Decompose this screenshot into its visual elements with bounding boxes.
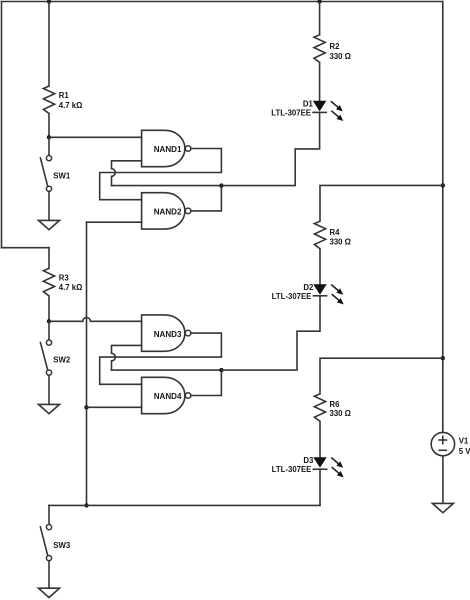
wire left rail [1, 2, 3, 248]
wire R6 to D3 [319, 421, 321, 457]
wire R3 to node [48, 296, 50, 321]
wire SW2 to ground [48, 375, 50, 404]
NAND gate U3 NAND3 [142, 315, 191, 351]
wire latch1 output line [112, 185, 222, 187]
wire NAND3 output to NAND4 input A [100, 333, 222, 384]
wire rail to R4 [320, 185, 443, 221]
wire D3 to SW3 line [319, 469, 321, 505]
wire node to NAND1 input A [49, 136, 142, 138]
voltage source V1 [431, 432, 470, 456]
svg-text:LTL-307EE: LTL-307EE [272, 292, 312, 301]
wire R1 top [48, 2, 50, 87]
resistor R6 [314, 394, 351, 422]
svg-text:R2: R2 [330, 42, 341, 51]
node R3 / SW2 / NAND3 [47, 319, 51, 323]
node right rail / R4 [441, 183, 445, 187]
svg-text:NAND2: NAND2 [154, 208, 182, 217]
svg-text:NAND3: NAND3 [154, 330, 182, 339]
NAND gate U1 NAND1 [142, 130, 191, 166]
svg-text:330 Ω: 330 Ω [330, 52, 351, 61]
svg-text:V1: V1 [459, 436, 469, 445]
switch SW1 [40, 156, 71, 192]
wire NAND4 input B [87, 406, 142, 408]
ground SW3 [39, 588, 60, 597]
svg-text:R4: R4 [330, 228, 341, 237]
svg-text:NAND4: NAND4 [154, 392, 182, 401]
wire node to SW2 [48, 321, 50, 340]
switch SW2 [40, 340, 71, 375]
node top rail / R1 [47, 0, 51, 4]
wire top rail [2, 1, 443, 3]
ground V1 [432, 503, 453, 512]
resistor R1 [43, 86, 82, 113]
wire R1 to node [48, 114, 50, 138]
wire left rail to R3 [2, 247, 50, 249]
node R1 / SW1 / NAND1 [47, 135, 51, 139]
svg-text:SW1: SW1 [53, 171, 71, 180]
wire SW1 to ground [48, 191, 50, 220]
resistor R4 [314, 221, 351, 249]
wire SW3 drop [48, 505, 50, 524]
wire NAND4 output up to node [191, 370, 222, 395]
ground SW2 [39, 404, 60, 413]
switch SW3 [40, 525, 71, 561]
wire rail to R6 [320, 358, 443, 394]
wire NAND1 output to NAND2 input A [100, 149, 222, 200]
resistor R2 [314, 35, 351, 63]
node NAND4 input B tap [84, 405, 88, 409]
wire D1 branch [221, 112, 319, 185]
wire NAND1 input B (from latch line, hop over y=172.5) [112, 161, 142, 186]
svg-text:5 V: 5 V [459, 447, 470, 456]
ground SW1 [39, 220, 60, 229]
wire NAND3 input B (from latch line, hop over y=357.1) [112, 345, 142, 370]
node top rail / R2 [317, 0, 321, 4]
svg-text:LTL-307EE: LTL-307EE [272, 465, 312, 474]
wire node to NAND3 input A (hop over x=86.5) [49, 318, 142, 322]
node NAND2 output / D1 branch [219, 183, 223, 187]
node SW3 line [84, 503, 88, 507]
LED D3 [272, 456, 344, 478]
wire D2 branch [221, 296, 320, 370]
wire R2 to D1 [319, 62, 321, 101]
svg-text:SW3: SW3 [53, 541, 71, 550]
svg-text:D1: D1 [303, 99, 314, 108]
wire SW3 line [49, 504, 320, 506]
NAND gate U4 NAND4 [142, 377, 191, 413]
LED D2 [272, 283, 344, 305]
wire latch2 output line [112, 369, 222, 371]
svg-text:R6: R6 [330, 400, 341, 409]
LED D1 [271, 99, 343, 121]
wire R2 top [319, 2, 321, 35]
svg-text:R3: R3 [59, 274, 70, 283]
wire NAND2 input B [87, 221, 142, 223]
wire right rail [442, 2, 444, 433]
wire node to SW1 [48, 137, 50, 155]
resistor R3 [43, 268, 82, 296]
svg-text:NAND1: NAND1 [154, 145, 182, 154]
wire NAND2 output up to node [191, 186, 222, 211]
NAND gate U2 NAND2 [142, 193, 191, 229]
svg-text:4.7 kΩ: 4.7 kΩ [59, 101, 83, 110]
svg-text:R1: R1 [59, 91, 70, 100]
node NAND4 output / D2 branch [219, 368, 223, 372]
svg-text:4.7 kΩ: 4.7 kΩ [59, 283, 83, 292]
wire NAND inputs to SW3 line [86, 222, 88, 505]
wire V1 to ground [442, 456, 444, 504]
svg-text:D3: D3 [303, 456, 314, 465]
wire R4 to D2 [319, 249, 321, 285]
svg-text:SW2: SW2 [53, 356, 71, 365]
svg-text:D2: D2 [303, 283, 314, 292]
svg-text:330 Ω: 330 Ω [330, 237, 351, 246]
svg-text:LTL-307EE: LTL-307EE [271, 109, 311, 118]
wire SW3 to ground [48, 561, 50, 589]
svg-text:330 Ω: 330 Ω [330, 409, 351, 418]
node right rail / R6 [441, 356, 445, 360]
wire R3 top [48, 248, 50, 269]
